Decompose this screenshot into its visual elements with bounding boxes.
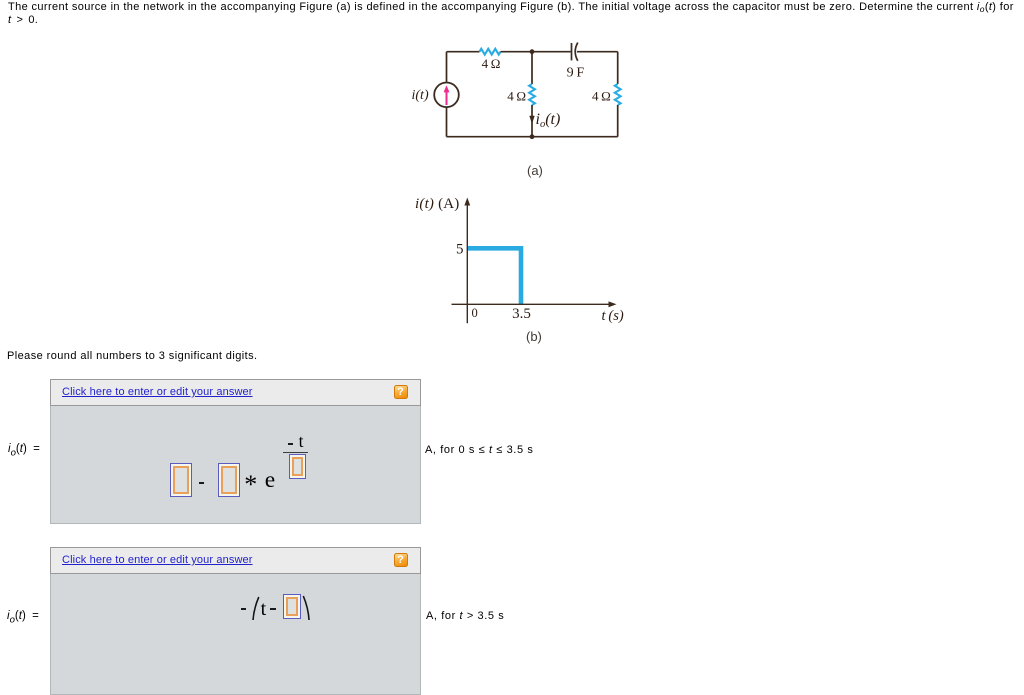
node bottom junction dot — [530, 134, 535, 139]
minus operator 2 — [270, 608, 276, 610]
minus operator — [241, 608, 247, 610]
capacitor C1 9F left plate — [571, 43, 573, 60]
resistor R2 4Ω middle zigzag — [529, 84, 535, 105]
answer input box (cut off) — [283, 594, 301, 619]
wire middle vertical upper — [531, 52, 533, 84]
x axis — [452, 303, 613, 305]
svg-text:5: 5 — [456, 242, 464, 258]
open paren — [246, 596, 262, 620]
current source i(t) circle — [434, 83, 459, 108]
svg-text:t (s): t (s) — [602, 308, 624, 324]
answer input box 1 — [170, 463, 192, 497]
wire right vertical upper — [617, 52, 619, 84]
exponent numerator t — [299, 433, 304, 451]
wire top-left segment — [447, 51, 480, 53]
wire right vertical lower — [617, 105, 619, 137]
wire left vertical above source — [446, 52, 448, 83]
units text box 2 — [426, 610, 504, 622]
wire top-right segment — [577, 51, 618, 53]
wire middle vertical lower — [531, 105, 533, 137]
caption (a) — [527, 163, 543, 178]
capacitor C1 9F curved plate — [575, 43, 578, 61]
answer input box 2 — [218, 463, 240, 497]
label io(t) = for box 1 — [8, 443, 40, 458]
exponent denominator input box — [289, 454, 306, 479]
wire left vertical below source — [446, 107, 448, 137]
times operator — [244, 472, 257, 498]
svg-text:i(t) (A): i(t) (A) — [415, 196, 460, 212]
units text box 1 — [425, 444, 533, 456]
label io(t) = for box 2 — [7, 610, 39, 625]
y axis — [466, 203, 468, 324]
svg-text:9 F: 9 F — [567, 66, 585, 81]
rounding note — [7, 350, 257, 362]
resistor R1 4Ω horizontal zigzag — [480, 49, 501, 55]
i(t) step waveform — [467, 248, 521, 304]
current source arrow (pink) — [446, 92, 448, 106]
arrow io(t) down — [529, 116, 534, 124]
svg-text:0: 0 — [472, 306, 478, 320]
exponent numerator minus — [288, 443, 294, 445]
t variable — [261, 599, 267, 619]
problem statement text — [8, 1, 1022, 26]
svg-text:i(t): i(t) — [412, 88, 429, 103]
wire bottom — [447, 136, 618, 138]
caption (b) — [526, 329, 542, 344]
svg-text:io(t): io(t) — [536, 111, 561, 130]
svg-text:4 Ω: 4 Ω — [482, 56, 501, 71]
graph figure (b) — [405, 192, 640, 342]
answer box 1 — [50, 379, 421, 524]
answer box 2 — [50, 547, 421, 695]
close paren — [297, 595, 313, 620]
e base — [265, 469, 275, 493]
svg-text:3.5: 3.5 — [512, 306, 531, 322]
svg-text:4 Ω: 4 Ω — [507, 89, 526, 104]
circuit figure (a) — [400, 36, 640, 186]
node top junction dot — [530, 49, 535, 54]
svg-text:4 Ω: 4 Ω — [592, 89, 611, 104]
fraction bar — [283, 452, 308, 453]
minus operator — [199, 482, 204, 484]
resistor R3 4Ω right zigzag — [615, 84, 621, 105]
wire top-middle segment — [501, 51, 571, 53]
